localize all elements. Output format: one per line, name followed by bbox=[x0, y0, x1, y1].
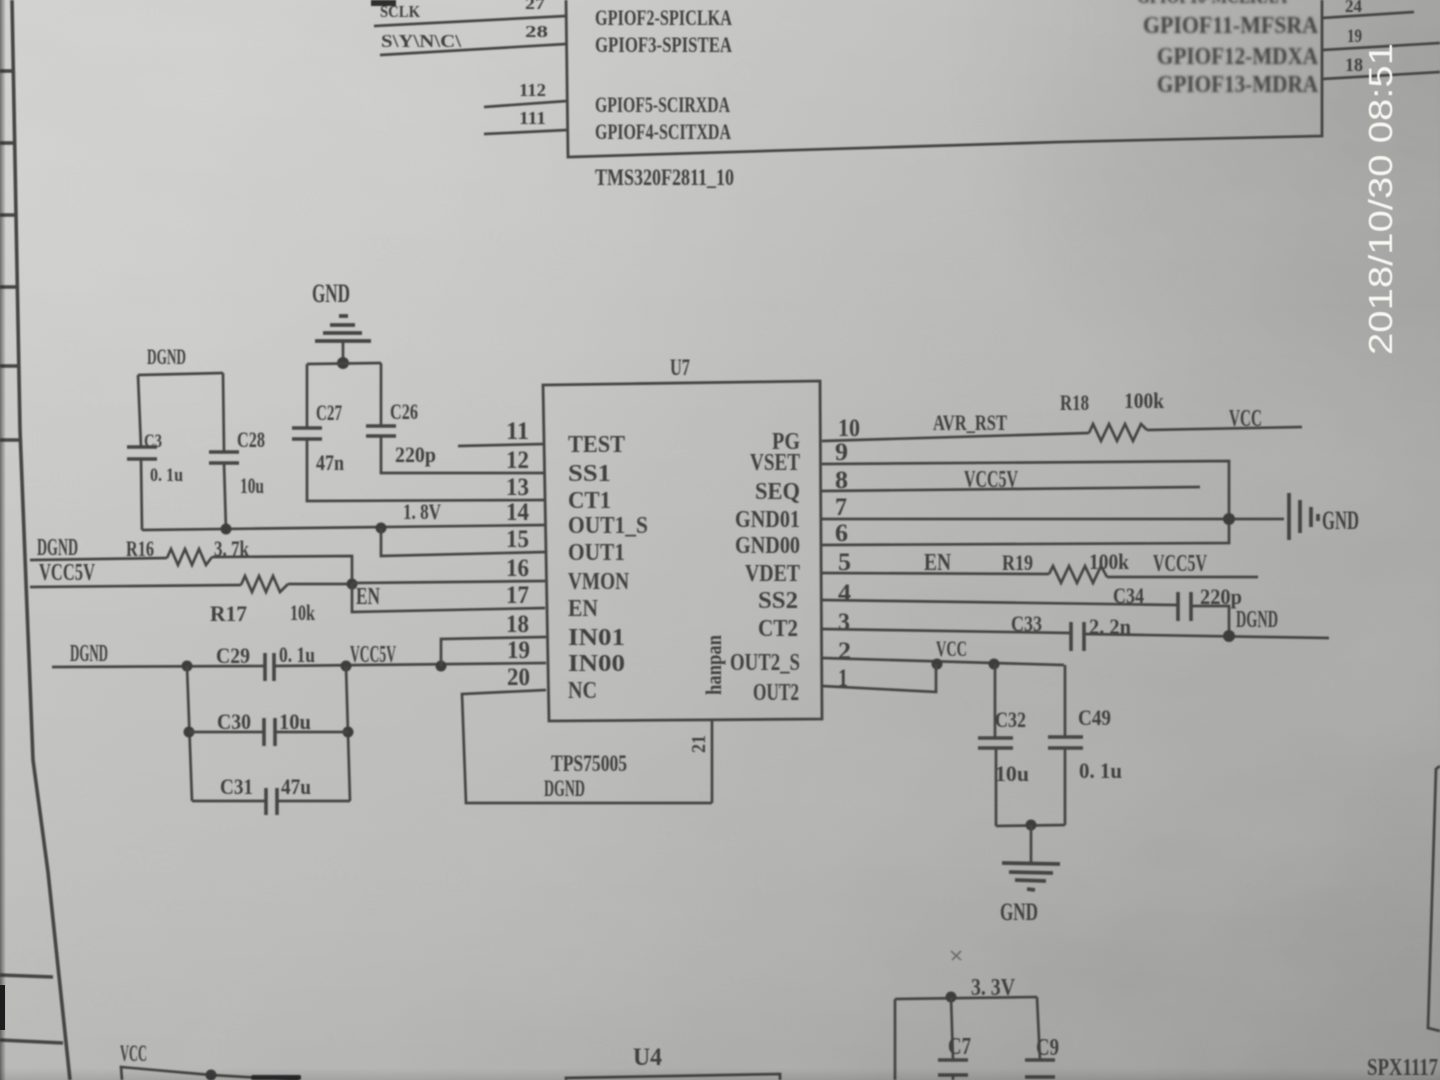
capacitor C3 ref label bbox=[144, 431, 162, 452]
svg-text:10u: 10u bbox=[279, 709, 311, 734]
capacitor C26 value 220p bbox=[395, 442, 436, 467]
capacitor C31 ref label bbox=[220, 774, 253, 799]
U7 internal vertical text hanpan bbox=[701, 635, 726, 695]
capacitor C29 ref label bbox=[216, 643, 250, 668]
svg-text:DGND: DGND bbox=[70, 641, 108, 667]
timestamp 2018/10/30 08:51 bbox=[1362, 43, 1399, 355]
wire C34 to DGND drop bbox=[1191, 606, 1229, 636]
svg-text:SS1: SS1 bbox=[568, 461, 611, 487]
wire net SYNC to pin 28 bbox=[380, 44, 566, 55]
node VCC5V net label at R19 bbox=[1153, 551, 1207, 577]
node S\Y\N\C\ net label bbox=[381, 31, 462, 51]
wire 3.3V header bbox=[895, 997, 1037, 999]
svg-text:S\Y\N\C\: S\Y\N\C\ bbox=[381, 31, 462, 51]
node VCC5V net label pin8 bbox=[964, 467, 1018, 493]
pin number 21 vertical bbox=[688, 735, 710, 753]
pin label TEST bbox=[568, 432, 625, 458]
capacitor C28 ref label bbox=[237, 427, 265, 452]
wire U7 pin 2 OUT2_S VCC rail bbox=[822, 658, 1064, 665]
wire U7 pin 9 VSET to GND trunk bbox=[822, 461, 1229, 519]
svg-text:18: 18 bbox=[506, 611, 529, 638]
pin number 20 bbox=[507, 664, 530, 691]
svg-text:47u: 47u bbox=[281, 774, 311, 799]
svg-text:7: 7 bbox=[835, 494, 847, 521]
pin label OUT1 bbox=[568, 540, 625, 566]
pin number 24 bbox=[1345, 0, 1362, 16]
IC U_top TMS320F2811_10 box outline bbox=[566, 0, 1322, 157]
svg-text:OUT1: OUT1 bbox=[568, 540, 625, 566]
connector pin tick 7 bbox=[0, 975, 53, 977]
svg-text:VCC5V: VCC5V bbox=[964, 467, 1018, 493]
pin number 9 bbox=[835, 439, 848, 466]
svg-text:GPIOF5-SCIRXDA: GPIOF5-SCIRXDA bbox=[595, 92, 730, 117]
svg-text:1. 8V: 1. 8V bbox=[403, 499, 441, 524]
svg-text:24: 24 bbox=[1345, 0, 1362, 16]
junction dot VCC C32 branch bbox=[989, 659, 1000, 670]
stain mark x above 3.3V bbox=[951, 951, 961, 960]
junction dot DGND rail top bbox=[182, 661, 193, 672]
pin label IN01 bbox=[568, 625, 625, 651]
connector pin tick 2 bbox=[0, 141, 15, 145]
node VCC net label at OUT2 bbox=[936, 636, 967, 661]
svg-text:CT2: CT2 bbox=[758, 616, 798, 642]
svg-text:0. 1u: 0. 1u bbox=[150, 465, 183, 486]
IC U4 ref label bbox=[633, 1044, 662, 1071]
wire DGND box top bbox=[138, 373, 223, 375]
svg-text:TMS320F2811_10: TMS320F2811_10 bbox=[595, 165, 734, 190]
pin number 3 bbox=[838, 609, 850, 636]
capacitor C31 value 47u bbox=[281, 774, 311, 799]
pin number 19 bbox=[507, 637, 530, 664]
svg-text:VDET: VDET bbox=[745, 561, 800, 587]
svg-text:DGND: DGND bbox=[147, 344, 186, 369]
svg-text:EN: EN bbox=[356, 584, 380, 610]
capacitor C31 plates bbox=[266, 788, 277, 815]
capacitor C3 plates bbox=[127, 447, 157, 459]
wire U7 pin 11 TEST stub bbox=[458, 444, 545, 446]
capacitor C26 ref label bbox=[390, 399, 418, 424]
svg-text:10: 10 bbox=[838, 415, 860, 442]
wire U7 pin 10 PG to R18 / AVR_RST bbox=[822, 433, 1089, 441]
wire NC pin20 loop to pin 21 bbox=[462, 690, 712, 803]
svg-text:U7: U7 bbox=[670, 355, 690, 380]
wire GND header C27 C26 bbox=[307, 363, 381, 364]
pin number 28 bbox=[525, 22, 548, 41]
svg-text:19: 19 bbox=[1347, 26, 1362, 47]
svg-text:C32: C32 bbox=[995, 707, 1026, 732]
capacitor C29 plates bbox=[265, 653, 274, 681]
ground GND top symbol (earth, bars up) bbox=[315, 316, 371, 341]
svg-text:15: 15 bbox=[506, 526, 529, 553]
junction dot VCC pin1 link bbox=[932, 659, 943, 670]
svg-text:GPIOF3-SPISTEA: GPIOF3-SPISTEA bbox=[595, 32, 732, 57]
wire DGND box left branch lower bbox=[141, 459, 142, 530]
node VCC label bottom left bbox=[120, 1041, 147, 1066]
pin label VSET bbox=[750, 450, 800, 476]
svg-text:0. 1u: 0. 1u bbox=[279, 642, 315, 667]
capacitor C30 ref label bbox=[217, 709, 251, 734]
junction dot DGND at C34 drop bbox=[1223, 630, 1235, 642]
svg-text:GPIOF12-MDXA: GPIOF12-MDXA bbox=[1157, 44, 1319, 70]
wire DGND box left branch upper bbox=[138, 375, 141, 447]
wire U7 pin 3 CT2 to C33 bbox=[822, 629, 1071, 633]
wire C31 row bbox=[192, 800, 350, 803]
svg-text:C33: C33 bbox=[1011, 611, 1042, 636]
svg-text:GPIOF13-MDRA: GPIOF13-MDRA bbox=[1157, 72, 1319, 98]
pin label GPIOF13-MDRA bbox=[1157, 72, 1319, 98]
node EN net label right bbox=[924, 550, 952, 576]
capacitor C49 value 0.1u bbox=[1079, 758, 1122, 783]
svg-text:C30: C30 bbox=[217, 709, 251, 734]
wire U7 pin 1 OUT2 riser bbox=[822, 664, 936, 692]
node DGND label under U7 bbox=[544, 776, 585, 801]
node 1.8V net label bbox=[403, 499, 441, 524]
capacitor C33 plates bbox=[1071, 622, 1084, 651]
svg-text:VCC: VCC bbox=[1229, 406, 1262, 432]
svg-text:GPIOF11-MFSRA: GPIOF11-MFSRA bbox=[1143, 13, 1319, 39]
svg-text:111: 111 bbox=[519, 108, 546, 128]
capacitor C28 plates bbox=[209, 452, 239, 463]
pin label GPIOF10 top edge cut bbox=[1137, 0, 1287, 8]
pin label SS1 bbox=[568, 461, 611, 487]
pin number 12 bbox=[506, 447, 529, 474]
resistor R17 value 10k bbox=[290, 600, 316, 625]
pin label VMON bbox=[568, 569, 630, 595]
svg-text:VCC: VCC bbox=[936, 636, 967, 661]
op-amp U7 regulator box outline bbox=[543, 381, 822, 721]
wire C27 branch upper bbox=[306, 364, 309, 428]
svg-text:11: 11 bbox=[506, 418, 529, 445]
capacitor C3 value 0.1u bbox=[150, 465, 183, 486]
pin number 13 bbox=[506, 474, 529, 501]
wire U7 pin 6 GND00 riser bbox=[822, 519, 1229, 545]
capacitor C34 ref label bbox=[1113, 583, 1144, 608]
junction dot C30 left bbox=[184, 727, 195, 738]
pin number 18 bbox=[506, 611, 529, 638]
svg-text:R19: R19 bbox=[1002, 550, 1033, 575]
svg-text:R18: R18 bbox=[1060, 390, 1089, 415]
svg-text:GND00: GND00 bbox=[735, 533, 800, 559]
pin number 111 bbox=[519, 108, 546, 128]
node DGND label left box bbox=[147, 344, 186, 369]
wire C9 branch bbox=[1037, 997, 1040, 1060]
pin label GPIOF2-SPICLKA bbox=[595, 5, 732, 30]
U7 part name TPS75005 bbox=[551, 751, 627, 776]
pin number 5 bbox=[838, 549, 851, 576]
wire 1.8V drop to pin 15 OUT1 bbox=[381, 528, 545, 556]
svg-text:GPIOF10-MCLKXA: GPIOF10-MCLKXA bbox=[1137, 0, 1287, 8]
wire C49 branch lower bbox=[1064, 748, 1067, 825]
wire U7 pin 5 VDET to R19 bbox=[822, 573, 1049, 574]
wire R16 to EN node bbox=[212, 556, 352, 584]
resistor R16 zigzag bbox=[167, 549, 212, 565]
wire pin 19 bbox=[1322, 43, 1440, 50]
pin label GND00 bbox=[735, 533, 800, 559]
ground GND symbol right (bars pointing right) bbox=[1289, 493, 1318, 540]
svg-text:28: 28 bbox=[525, 22, 548, 41]
wire pin 112 bbox=[484, 101, 567, 107]
pin label OUT1_S bbox=[568, 513, 648, 539]
node DGND label right bbox=[1236, 607, 1278, 633]
pin label PG bbox=[772, 429, 800, 455]
ground GND bottom symbol bbox=[1002, 863, 1060, 890]
wire GND stem bbox=[342, 341, 345, 363]
connector pin tick 5 bbox=[0, 364, 20, 368]
wire C32 branch lower bbox=[995, 748, 998, 826]
svg-text:hanpan: hanpan bbox=[701, 635, 726, 695]
pin label GPIOF12-MDXA bbox=[1157, 44, 1319, 70]
svg-text:C29: C29 bbox=[216, 643, 250, 668]
IC U_top name label TMS320F2811_10 bbox=[595, 165, 734, 190]
svg-text:C27: C27 bbox=[316, 400, 342, 425]
pin number 14 bbox=[506, 499, 529, 526]
svg-text:EN: EN bbox=[568, 596, 599, 622]
wire 3.3V left drop bbox=[894, 999, 897, 1080]
wire U7 pin 4 SS2 to C34 bbox=[822, 600, 1178, 605]
svg-text:C26: C26 bbox=[390, 399, 418, 424]
svg-text:18: 18 bbox=[1345, 55, 1363, 76]
svg-text:C9: C9 bbox=[1036, 1035, 1059, 1061]
pin label SS2 bbox=[758, 588, 798, 614]
svg-text:GND: GND bbox=[312, 279, 350, 308]
ground GND bottom label bbox=[1000, 899, 1038, 926]
svg-text:C34: C34 bbox=[1113, 583, 1144, 608]
junction dot on 1.8V net at C28 bbox=[221, 524, 232, 535]
svg-text:14: 14 bbox=[506, 499, 529, 526]
capacitor C27 value 47n bbox=[316, 450, 344, 475]
wire R17 to EN junction bbox=[288, 583, 352, 586]
capacitor C49 plates bbox=[1048, 737, 1083, 748]
ground GND top symbol label bbox=[312, 279, 350, 308]
node VCC5V label at R17 bbox=[39, 560, 95, 586]
svg-text:10u: 10u bbox=[240, 473, 264, 498]
svg-text:TEST: TEST bbox=[568, 432, 625, 458]
ground GND right label bbox=[1322, 506, 1359, 535]
svg-text:OUT2_S: OUT2_S bbox=[730, 650, 800, 676]
svg-text:IN01: IN01 bbox=[568, 625, 625, 651]
pin label SEQ bbox=[755, 479, 800, 505]
svg-text:C31: C31 bbox=[220, 774, 253, 799]
svg-text:100k: 100k bbox=[1089, 549, 1130, 574]
svg-text:12: 12 bbox=[506, 447, 529, 474]
capacitor C32 ref label bbox=[995, 707, 1026, 732]
capacitor C27 ref label bbox=[316, 400, 342, 425]
wire pin 18 bbox=[1322, 72, 1440, 79]
junction dot VCC5V rail top bbox=[341, 661, 352, 672]
left paper edge shade bbox=[0, 1068, 1440, 1080]
svg-text:SCLK: SCLK bbox=[380, 2, 421, 21]
svg-text:GPIOF4-SCITXDA: GPIOF4-SCITXDA bbox=[595, 119, 731, 144]
capacitor C30 plates bbox=[264, 718, 275, 746]
svg-text:20: 20 bbox=[507, 664, 530, 691]
wire R19 to VCC5V bbox=[1107, 576, 1258, 579]
wire R18 to VCC bbox=[1147, 427, 1302, 430]
wire 1.8V net to U7 pin 14 OUT1_S bbox=[142, 525, 545, 530]
wire net SCLK to pin 27 bbox=[374, 16, 566, 26]
svg-text:10u: 10u bbox=[995, 761, 1029, 786]
wire VCC5V to R17 bbox=[30, 585, 241, 587]
svg-text:R16: R16 bbox=[126, 536, 154, 561]
junction dot C30 right bbox=[343, 727, 354, 738]
wire U7 pin 8 SEQ VCC5V bbox=[822, 487, 1200, 491]
wire U7 pin 21 stem bbox=[711, 721, 714, 803]
svg-text:VSET: VSET bbox=[750, 450, 800, 476]
wire C32 branch upper bbox=[994, 664, 997, 738]
wire DGND to R16 bbox=[30, 558, 167, 560]
pin label CT1 bbox=[568, 488, 611, 514]
wire C26 branch lower to U7 pin 12 SS1 bbox=[381, 436, 545, 473]
svg-text:SEQ: SEQ bbox=[755, 479, 800, 505]
wire DGND rail down left bbox=[187, 666, 192, 801]
node 3.3V net label bbox=[971, 975, 1016, 1001]
capacitor C32 plates bbox=[978, 738, 1013, 748]
resistor R16 value 3.7k bbox=[214, 536, 250, 561]
wire GND stem bottom bbox=[1030, 825, 1033, 862]
resistor R17 zigzag bbox=[241, 576, 288, 592]
node DGND label at R16 bbox=[37, 535, 78, 561]
svg-text:10k: 10k bbox=[290, 600, 316, 625]
svg-text:TPS75005: TPS75005 bbox=[551, 751, 627, 776]
capacitor C28 value 10u bbox=[240, 473, 264, 498]
wire C29 to U7 pin 19 IN00 bbox=[274, 663, 546, 666]
node AVR_RST net label bbox=[933, 410, 1007, 435]
pin label GPIOF5-SCIRXDA bbox=[595, 92, 730, 117]
wire pin 111 bbox=[484, 130, 567, 134]
pin number 16 bbox=[506, 555, 529, 582]
pin label GPIOF3-SPISTEA bbox=[595, 32, 732, 57]
svg-text:21: 21 bbox=[688, 735, 710, 753]
svg-text:OUT1_S: OUT1_S bbox=[568, 513, 648, 539]
svg-text:GPIOF2-SPICLKA: GPIOF2-SPICLKA bbox=[595, 5, 732, 30]
svg-text:EN: EN bbox=[924, 550, 952, 576]
capacitor C9 ref label bbox=[1036, 1035, 1059, 1061]
svg-text:0. 1u: 0. 1u bbox=[1079, 758, 1122, 783]
pin label GPIOF4-SCITXDA bbox=[595, 119, 731, 144]
svg-text:OUT2: OUT2 bbox=[753, 680, 799, 706]
svg-text:DGND: DGND bbox=[544, 776, 585, 801]
pin number 10 bbox=[838, 415, 860, 442]
wire C7 below bbox=[952, 1075, 955, 1080]
pin number 6 bbox=[835, 520, 848, 547]
connector pin tick 4 bbox=[0, 285, 18, 289]
svg-text:DGND: DGND bbox=[1236, 607, 1278, 633]
pin number 17 bbox=[506, 582, 529, 609]
svg-text:VCC: VCC bbox=[120, 1041, 147, 1066]
svg-text:C7: C7 bbox=[948, 1034, 971, 1060]
wire cut stub above SCLK bbox=[371, 0, 396, 6]
svg-text:U4: U4 bbox=[633, 1044, 662, 1071]
resistor R18 ref label bbox=[1060, 390, 1089, 415]
wire C33 to DGND rail bbox=[1084, 634, 1329, 638]
wire VCC5V rail down right bbox=[346, 666, 350, 801]
resistor R17 ref label bbox=[210, 601, 247, 626]
pin number 18 bbox=[1345, 55, 1363, 76]
resistor R19 ref label bbox=[1002, 550, 1033, 575]
wire C32 C49 join bbox=[996, 825, 1065, 826]
svg-text:C28: C28 bbox=[237, 427, 265, 452]
svg-text:VCC5V: VCC5V bbox=[1153, 551, 1207, 577]
svg-text:AVR_RST: AVR_RST bbox=[933, 410, 1007, 435]
pin number 1 bbox=[838, 665, 848, 692]
svg-text:17: 17 bbox=[506, 582, 529, 609]
svg-text:C49: C49 bbox=[1078, 705, 1111, 730]
svg-text:6: 6 bbox=[835, 520, 848, 547]
pin label OUT2_S bbox=[730, 650, 800, 676]
component dark element bottom left bbox=[251, 1075, 301, 1080]
svg-text:VMON: VMON bbox=[568, 569, 630, 595]
wire VCC corner bottom left bbox=[121, 1067, 298, 1080]
resistor R18 value 100k bbox=[1124, 388, 1165, 413]
junction dot EN node bbox=[347, 579, 358, 590]
pin number 112 bbox=[519, 80, 546, 100]
svg-text:NC: NC bbox=[568, 678, 597, 704]
pin label IN00 bbox=[568, 651, 625, 677]
wire link up to U7 pin 18 IN01 bbox=[441, 637, 546, 666]
svg-text:16: 16 bbox=[506, 555, 529, 582]
pin label NC bbox=[568, 678, 597, 704]
svg-text:DGND: DGND bbox=[37, 535, 78, 561]
pin label GPIOF11-MFSRA bbox=[1143, 13, 1319, 39]
svg-text:IN00: IN00 bbox=[568, 651, 625, 677]
svg-text:3: 3 bbox=[838, 609, 850, 636]
capacitor C32 value 10u bbox=[995, 761, 1029, 786]
svg-text:CT1: CT1 bbox=[568, 488, 611, 514]
wire DGND box right branch lower bbox=[224, 463, 226, 530]
connector pin tick 8 bbox=[0, 1040, 63, 1043]
pin number 27 bbox=[525, 0, 546, 13]
connector pin tick 6 bbox=[0, 438, 21, 442]
svg-text:2018/10/30 08:51: 2018/10/30 08:51 bbox=[1362, 43, 1399, 355]
svg-text:2: 2 bbox=[838, 638, 851, 665]
IC SPX1117 name label bbox=[1367, 1055, 1438, 1080]
junction dot pin18 link bbox=[436, 661, 447, 672]
junction dot GND node bbox=[337, 357, 349, 369]
pin number 7 bbox=[835, 494, 847, 521]
wire C7 branch bbox=[951, 997, 953, 1060]
svg-text:GND: GND bbox=[1000, 899, 1038, 926]
capacitor C33 value 2.2n bbox=[1089, 614, 1131, 639]
junction dot GND trunk bbox=[1223, 513, 1235, 525]
capacitor C49 ref label bbox=[1078, 705, 1111, 730]
svg-text:9: 9 bbox=[835, 439, 848, 466]
capacitor C7 plates bbox=[938, 1060, 968, 1075]
connector pin tick 3 bbox=[0, 213, 17, 217]
wire C30 row bbox=[189, 731, 348, 734]
pin number 19 bbox=[1347, 26, 1362, 47]
svg-text:100k: 100k bbox=[1124, 388, 1165, 413]
junction dot VCC bottom left bbox=[206, 1070, 217, 1080]
resistor R16 ref label bbox=[126, 536, 154, 561]
node VCC net label right bbox=[1229, 406, 1262, 432]
wire SPX1117 box edge right bbox=[1428, 766, 1440, 1031]
pin number 8 bbox=[835, 467, 848, 494]
wire C27 branch lower to U7 pin 13 CT1 bbox=[307, 439, 545, 501]
svg-text:47n: 47n bbox=[316, 450, 344, 475]
node VCC5V label at C29 bbox=[350, 642, 396, 668]
connector edge left border column bbox=[12, 0, 70, 1080]
connector pin tick 1 bbox=[0, 69, 14, 73]
capacitor C26 plates bbox=[366, 426, 396, 436]
resistor R19 zigzag bbox=[1049, 566, 1107, 583]
pin label EN bbox=[568, 596, 599, 622]
pin number 2 bbox=[838, 638, 851, 665]
svg-text:SS2: SS2 bbox=[758, 588, 798, 614]
resistor R18 zigzag bbox=[1089, 424, 1147, 441]
capacitor C34 plates bbox=[1178, 592, 1191, 621]
svg-text:VCC5V: VCC5V bbox=[39, 560, 95, 586]
wire pin 24 bbox=[1322, 12, 1414, 18]
pin number 4 bbox=[838, 580, 852, 607]
